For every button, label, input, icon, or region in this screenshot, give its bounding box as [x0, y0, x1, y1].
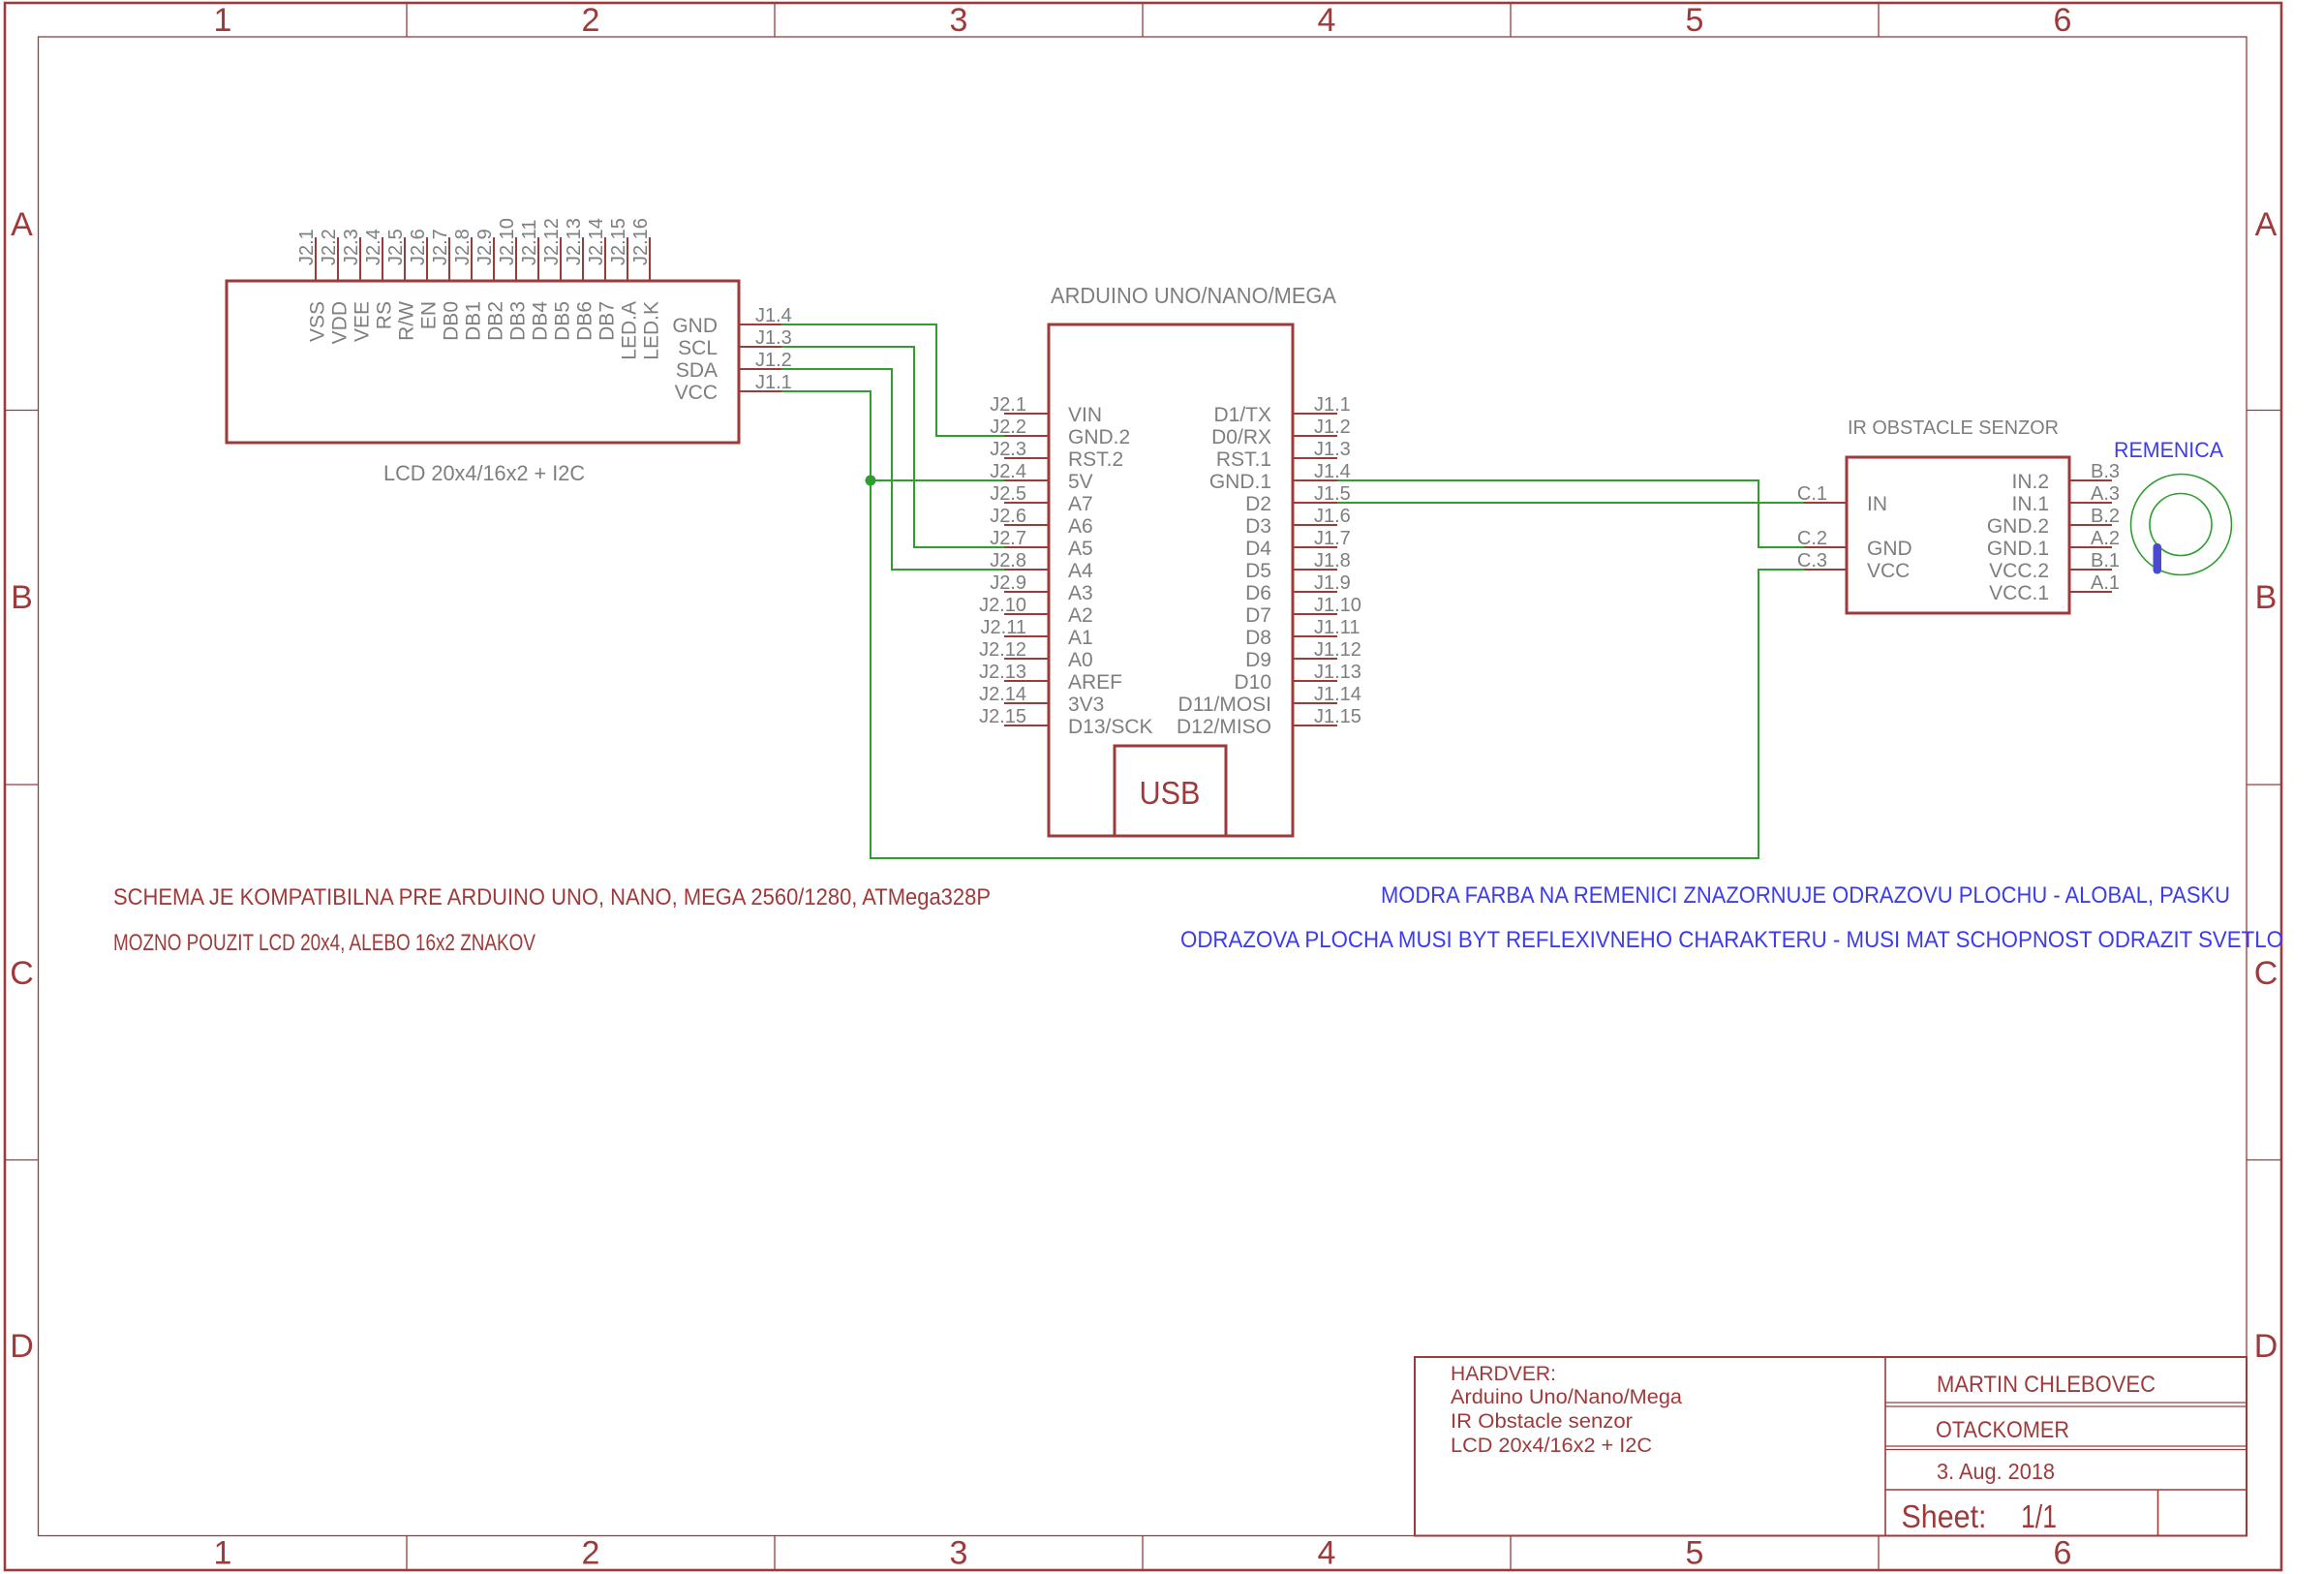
- svg-text:J2.1: J2.1: [296, 229, 318, 265]
- svg-text:RS: RS: [374, 301, 396, 329]
- svg-text:IR OBSTACLE SENZOR: IR OBSTACLE SENZOR: [1848, 417, 2059, 439]
- svg-text:1: 1: [214, 2, 232, 39]
- svg-text:J1.1: J1.1: [755, 372, 792, 393]
- svg-text:A3: A3: [1068, 582, 1093, 604]
- svg-text:LED.K: LED.K: [641, 301, 663, 360]
- svg-text:OTACKOMER: OTACKOMER: [1936, 1417, 2069, 1443]
- svg-text:J2.15: J2.15: [608, 218, 629, 265]
- svg-text:USB: USB: [1140, 775, 1201, 811]
- svg-text:J2.16: J2.16: [630, 218, 652, 265]
- svg-text:D7: D7: [1245, 604, 1271, 627]
- svg-text:J2.5: J2.5: [990, 483, 1026, 505]
- svg-text:D: D: [2254, 1328, 2278, 1365]
- svg-text:J1.6: J1.6: [1314, 506, 1351, 527]
- svg-text:GND.2: GND.2: [1068, 426, 1130, 448]
- svg-text:VCC.1: VCC.1: [1989, 582, 2049, 604]
- svg-text:J2.10: J2.10: [497, 218, 518, 265]
- svg-text:J1.9: J1.9: [1314, 572, 1351, 594]
- svg-text:J1.10: J1.10: [1314, 595, 1361, 616]
- svg-text:A7: A7: [1068, 493, 1093, 515]
- svg-text:REMENICA: REMENICA: [2114, 438, 2223, 462]
- svg-text:IN: IN: [1867, 493, 1887, 515]
- svg-text:J2.7: J2.7: [990, 528, 1026, 549]
- svg-text:J2.4: J2.4: [990, 461, 1026, 482]
- svg-text:A5: A5: [1068, 538, 1093, 560]
- svg-text:J1.4: J1.4: [1314, 461, 1351, 482]
- svg-text:J2.9: J2.9: [474, 229, 496, 265]
- svg-text:3V3: 3V3: [1068, 694, 1104, 716]
- svg-text:J2.2: J2.2: [319, 229, 340, 265]
- svg-text:GND: GND: [1867, 538, 1912, 560]
- svg-text:J1.8: J1.8: [1314, 550, 1351, 571]
- svg-text:1: 1: [214, 1535, 232, 1572]
- svg-text:MOZNO POUZIT LCD 20x4, ALEBO 1: MOZNO POUZIT LCD 20x4, ALEBO 16x2 ZNAKOV: [113, 930, 536, 956]
- svg-text:A0: A0: [1068, 649, 1093, 671]
- svg-text:J1.7: J1.7: [1314, 528, 1351, 549]
- svg-text:2: 2: [582, 1535, 600, 1572]
- svg-text:GND: GND: [672, 315, 718, 337]
- svg-text:J1.2: J1.2: [1314, 417, 1351, 438]
- svg-text:3: 3: [950, 2, 968, 39]
- svg-text:A.3: A.3: [2091, 483, 2120, 505]
- svg-text:IN.1: IN.1: [2011, 493, 2049, 515]
- svg-text:DB2: DB2: [485, 301, 507, 341]
- svg-text:SDA: SDA: [676, 359, 718, 382]
- svg-text:J1.2: J1.2: [755, 350, 792, 371]
- svg-text:J2.8: J2.8: [990, 550, 1026, 571]
- svg-text:J1.1: J1.1: [1314, 394, 1351, 416]
- svg-text:J2.6: J2.6: [408, 229, 429, 265]
- svg-text:J2.10: J2.10: [979, 595, 1026, 616]
- svg-text:3: 3: [950, 1535, 968, 1572]
- svg-text:D6: D6: [1245, 582, 1271, 604]
- svg-text:5V: 5V: [1068, 471, 1093, 493]
- svg-text:VDD: VDD: [329, 301, 352, 344]
- svg-text:J2.12: J2.12: [541, 218, 563, 265]
- svg-text:D5: D5: [1245, 560, 1271, 582]
- svg-text:B: B: [2255, 579, 2278, 616]
- svg-text:VSS: VSS: [307, 301, 329, 342]
- svg-text:VCC: VCC: [675, 382, 718, 404]
- svg-text:J2.11: J2.11: [981, 617, 1026, 638]
- svg-text:4: 4: [1318, 2, 1336, 39]
- svg-text:J1.3: J1.3: [1314, 439, 1351, 460]
- svg-text:J1.5: J1.5: [1314, 483, 1351, 505]
- svg-text:A.2: A.2: [2091, 528, 2120, 549]
- svg-text:4: 4: [1318, 1535, 1336, 1572]
- svg-text:J2.5: J2.5: [385, 229, 407, 265]
- svg-text:J2.11: J2.11: [519, 220, 540, 265]
- svg-text:DB0: DB0: [441, 301, 463, 341]
- svg-text:SCL: SCL: [678, 337, 718, 359]
- svg-text:6: 6: [2054, 2, 2072, 39]
- svg-text:D11/MOSI: D11/MOSI: [1178, 694, 1271, 716]
- svg-text:J2.13: J2.13: [979, 662, 1026, 683]
- svg-text:A6: A6: [1068, 515, 1093, 538]
- svg-text:RST.1: RST.1: [1216, 448, 1271, 471]
- svg-text:A1: A1: [1068, 627, 1093, 649]
- svg-text:B: B: [11, 579, 33, 616]
- svg-text:DB7: DB7: [596, 301, 619, 341]
- svg-text:VCC: VCC: [1867, 560, 1910, 582]
- svg-text:GND.1: GND.1: [1209, 471, 1271, 493]
- svg-text:C: C: [2254, 955, 2278, 992]
- svg-text:LED.A: LED.A: [619, 301, 641, 360]
- svg-text:Sheet:: Sheet:: [1902, 1498, 1987, 1534]
- svg-text:GND.1: GND.1: [1987, 538, 2049, 560]
- svg-text:D10: D10: [1234, 671, 1271, 694]
- svg-text:J2.1: J2.1: [990, 394, 1026, 416]
- svg-text:3. Aug. 2018: 3. Aug. 2018: [1937, 1459, 2055, 1484]
- svg-text:J2.4: J2.4: [363, 229, 384, 265]
- svg-text:J1.13: J1.13: [1314, 662, 1361, 683]
- svg-text:IN.2: IN.2: [2011, 471, 2049, 493]
- svg-text:D2: D2: [1245, 493, 1271, 515]
- svg-text:DB5: DB5: [552, 301, 574, 341]
- svg-text:Arduino Uno/Nano/Mega: Arduino Uno/Nano/Mega: [1451, 1386, 1682, 1408]
- svg-text:B.1: B.1: [2091, 550, 2120, 571]
- svg-text:RST.2: RST.2: [1068, 448, 1123, 471]
- svg-text:A: A: [11, 206, 33, 243]
- svg-text:J2.14: J2.14: [586, 218, 607, 265]
- svg-text:MODRA FARBA NA REMENICI ZNAZOR: MODRA FARBA NA REMENICI ZNAZORNUJE ODRAZ…: [1381, 882, 2230, 909]
- svg-text:J2.15: J2.15: [979, 706, 1026, 727]
- svg-text:J1.15: J1.15: [1314, 706, 1361, 727]
- svg-text:HARDVER:: HARDVER:: [1451, 1363, 1556, 1385]
- svg-text:J1.3: J1.3: [755, 327, 792, 349]
- svg-text:6: 6: [2054, 1535, 2072, 1572]
- svg-text:J1.11: J1.11: [1314, 617, 1360, 638]
- svg-text:VEE: VEE: [352, 301, 374, 342]
- svg-text:J2.3: J2.3: [341, 229, 362, 265]
- svg-text:J2.8: J2.8: [452, 229, 474, 265]
- svg-text:5: 5: [1686, 1535, 1704, 1572]
- svg-text:B.2: B.2: [2091, 506, 2120, 527]
- svg-text:GND.2: GND.2: [1987, 515, 2049, 538]
- svg-text:J2.3: J2.3: [990, 439, 1026, 460]
- svg-text:D3: D3: [1245, 515, 1271, 538]
- svg-text:J1.4: J1.4: [755, 305, 792, 326]
- svg-text:C.2: C.2: [1797, 528, 1827, 549]
- svg-text:J2.6: J2.6: [990, 506, 1026, 527]
- svg-text:R/W: R/W: [396, 301, 418, 341]
- svg-text:D0/RX: D0/RX: [1211, 426, 1271, 448]
- svg-text:A.1: A.1: [2091, 572, 2120, 594]
- svg-text:D4: D4: [1245, 538, 1271, 560]
- svg-text:MARTIN CHLEBOVEC: MARTIN CHLEBOVEC: [1937, 1372, 2156, 1398]
- svg-text:LCD 20x4/16x2 + I2C: LCD 20x4/16x2 + I2C: [1451, 1435, 1652, 1457]
- svg-text:A4: A4: [1068, 560, 1093, 582]
- svg-text:D13/SCK: D13/SCK: [1068, 716, 1153, 738]
- svg-text:DB4: DB4: [530, 301, 552, 341]
- svg-text:DB3: DB3: [507, 301, 530, 341]
- svg-text:VIN: VIN: [1068, 404, 1102, 426]
- svg-text:J2.9: J2.9: [990, 572, 1026, 594]
- svg-text:B.3: B.3: [2091, 461, 2120, 482]
- svg-text:J1.14: J1.14: [1314, 684, 1361, 705]
- svg-text:5: 5: [1686, 2, 1704, 39]
- svg-text:2: 2: [582, 2, 600, 39]
- svg-text:D8: D8: [1245, 627, 1271, 649]
- svg-text:J2.7: J2.7: [430, 229, 451, 265]
- svg-text:A: A: [2255, 206, 2278, 243]
- svg-text:SCHEMA JE KOMPATIBILNA PRE ARD: SCHEMA JE KOMPATIBILNA PRE ARDUINO UNO, …: [113, 884, 991, 910]
- svg-text:C: C: [10, 955, 34, 992]
- svg-text:D9: D9: [1245, 649, 1271, 671]
- svg-text:LCD 20x4/16x2 + I2C: LCD 20x4/16x2 + I2C: [383, 461, 585, 485]
- svg-text:J2.13: J2.13: [564, 218, 585, 265]
- svg-text:A2: A2: [1068, 604, 1093, 627]
- svg-text:1/1: 1/1: [2021, 1498, 2057, 1534]
- svg-text:IR Obstacle senzor: IR Obstacle senzor: [1451, 1410, 1633, 1433]
- svg-text:J2.14: J2.14: [979, 684, 1026, 705]
- svg-text:EN: EN: [418, 301, 441, 329]
- svg-text:DB1: DB1: [463, 301, 485, 341]
- svg-text:AREF: AREF: [1068, 671, 1122, 694]
- svg-text:J2.2: J2.2: [990, 417, 1026, 438]
- svg-text:D12/MISO: D12/MISO: [1177, 716, 1271, 738]
- svg-text:DB6: DB6: [574, 301, 596, 341]
- svg-text:C.1: C.1: [1797, 483, 1827, 505]
- svg-text:VCC.2: VCC.2: [1989, 560, 2049, 582]
- svg-text:C.3: C.3: [1797, 550, 1827, 571]
- svg-text:D: D: [10, 1328, 34, 1365]
- svg-text:D1/TX: D1/TX: [1213, 404, 1271, 426]
- svg-text:J1.12: J1.12: [1314, 639, 1361, 661]
- svg-text:J2.12: J2.12: [979, 639, 1026, 661]
- svg-text:ARDUINO UNO/NANO/MEGA: ARDUINO UNO/NANO/MEGA: [1051, 283, 1337, 308]
- svg-text:ODRAZOVA PLOCHA MUSI BYT REFLE: ODRAZOVA PLOCHA MUSI BYT REFLEXIVNEHO CH…: [1180, 927, 2283, 953]
